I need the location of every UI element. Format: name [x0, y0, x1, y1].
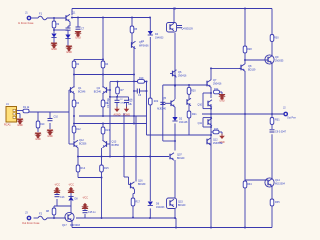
svg-text:GND: GND [47, 135, 53, 138]
svg-text:GND: GND [17, 124, 23, 127]
svg-text:2N5416: 2N5416 [213, 82, 222, 85]
svg-text:R24: R24 [214, 88, 219, 91]
svg-text:R20: R20 [191, 89, 196, 92]
svg-text:-VCC: -VCC [68, 184, 74, 187]
svg-text:GND: GND [51, 48, 57, 51]
svg-text:R12: R12 [76, 128, 81, 131]
svg-text:AGND: AGND [123, 114, 130, 117]
svg-text:Q17: Q17 [62, 224, 67, 227]
svg-text:BC546: BC546 [78, 90, 86, 93]
svg-text:C10: C10 [54, 116, 59, 119]
svg-text:2N5416: 2N5416 [178, 74, 187, 77]
svg-text:C9 0.0047: C9 0.0047 [275, 131, 287, 134]
svg-text:R28: R28 [247, 48, 252, 51]
svg-text:AGND: AGND [114, 114, 121, 117]
svg-text:470p: 470p [120, 102, 126, 104]
svg-text:Q4 BD139: Q4 BD139 [182, 28, 194, 31]
svg-text:GND: GND [66, 51, 72, 54]
svg-text:RCA1: RCA1 [4, 124, 11, 127]
svg-text:Q10: Q10 [197, 104, 202, 107]
svg-text:Out Pwr: Out Pwr [287, 117, 296, 120]
svg-text:R19: R19 [139, 77, 144, 80]
svg-text:BD140: BD140 [178, 204, 186, 207]
svg-text:Out From Fuse: Out From Fuse [22, 221, 40, 225]
svg-text:BD139: BD139 [248, 68, 256, 71]
svg-text:C15 1n: C15 1n [88, 211, 96, 214]
svg-text:BC556: BC556 [112, 144, 120, 147]
svg-text:-VCC: -VCC [54, 184, 60, 187]
svg-text:R15: R15 [104, 167, 109, 170]
svg-text:MJ15003: MJ15003 [70, 224, 81, 227]
svg-text:Q11: Q11 [198, 122, 203, 125]
svg-text:R34: R34 [247, 183, 252, 186]
svg-text:2N3055E: 2N3055E [213, 143, 223, 145]
svg-text:GND: GND [75, 37, 81, 40]
svg-text:R10: R10 [40, 123, 45, 126]
svg-text:R17: R17 [136, 201, 141, 204]
svg-text:R30: R30 [274, 37, 279, 40]
svg-text:C13: C13 [60, 196, 65, 199]
svg-text:MPSA56: MPSA56 [139, 44, 149, 47]
svg-text:GND: GND [219, 100, 225, 103]
svg-text:R21: R21 [192, 113, 197, 116]
svg-text:BD140: BD140 [177, 157, 185, 160]
svg-text:BC556: BC556 [79, 142, 87, 145]
svg-text:MJ15004: MJ15004 [275, 182, 286, 185]
svg-text:C3 470p: C3 470p [106, 98, 110, 108]
svg-text:Q12: Q12 [213, 139, 218, 142]
svg-text:1N4003: 1N4003 [155, 36, 164, 39]
svg-text:1N4148: 1N4148 [179, 121, 188, 124]
svg-text:R1 1k: R1 1k [23, 106, 30, 109]
svg-text:R26: R26 [214, 128, 219, 131]
svg-text:R31: R31 [275, 119, 280, 122]
svg-text:2N3055: 2N3055 [275, 59, 284, 62]
svg-text:In From Fuse: In From Fuse [18, 21, 34, 25]
svg-text:BC546: BC546 [94, 90, 102, 93]
svg-text:BD139: BD139 [138, 183, 146, 186]
svg-text:R22: R22 [154, 100, 159, 103]
svg-text:R35: R35 [275, 201, 280, 204]
svg-text:1N4003: 1N4003 [156, 206, 165, 209]
svg-text:MJE340: MJE340 [157, 108, 166, 111]
svg-text:R13: R13 [105, 129, 110, 132]
svg-text:R14: R14 [81, 167, 86, 170]
svg-text:GND: GND [35, 138, 41, 141]
svg-text:-VCC: -VCC [82, 197, 88, 200]
